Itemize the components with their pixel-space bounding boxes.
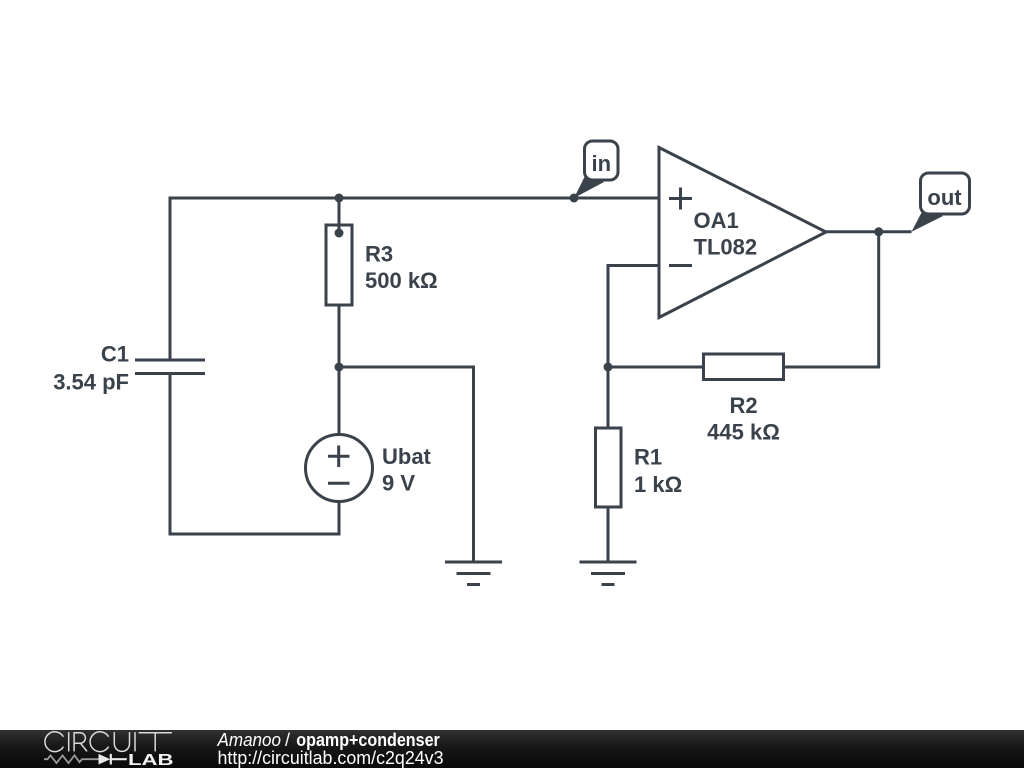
svg-text:TL082: TL082 [694,235,758,260]
svg-text:LAB: LAB [128,752,174,768]
svg-text:/: / [285,730,290,750]
svg-text:R3: R3 [365,242,393,267]
svg-text:R1: R1 [634,445,662,470]
svg-text:opamp+condenser: opamp+condenser [296,730,440,750]
svg-text:R2: R2 [729,393,757,418]
svg-text:Amanoo: Amanoo [217,730,281,750]
svg-text:9 V: 9 V [382,471,415,496]
svg-text:C1: C1 [101,342,129,367]
svg-text:OA1: OA1 [694,208,739,233]
svg-text:500 kΩ: 500 kΩ [365,268,438,293]
svg-text:1 kΩ: 1 kΩ [634,472,682,497]
svg-text:in: in [592,151,612,176]
svg-text:out: out [927,185,962,210]
svg-text:Ubat: Ubat [382,444,432,469]
svg-text:3.54 pF: 3.54 pF [53,370,129,395]
svg-text:http://circuitlab.com/c2q24v3: http://circuitlab.com/c2q24v3 [218,748,444,768]
svg-text:445 kΩ: 445 kΩ [707,419,780,444]
